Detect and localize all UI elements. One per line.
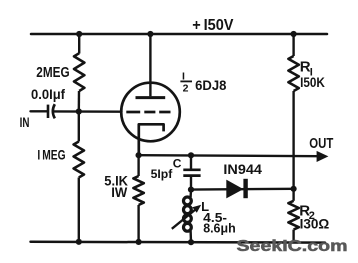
svg-text:8.6μh: 8.6μh <box>203 222 236 236</box>
svg-text:2MEG: 2MEG <box>36 65 69 81</box>
junction node: grid input <box>76 108 82 114</box>
wire: IN lead to coupling capacitor <box>31 110 48 112</box>
svg-text:I50K: I50K <box>300 74 325 90</box>
svg-text:IW: IW <box>111 184 128 200</box>
wire: 2MEG to input node <box>78 91 81 112</box>
capacitor C 51pf <box>183 170 200 176</box>
svg-text:OUT: OUT <box>309 136 333 152</box>
junction node: diode/R1/R2 <box>291 186 297 192</box>
junction node: gnd/5.1K <box>136 239 142 245</box>
wire: capacitor to grid of tube <box>54 110 122 113</box>
junction node: gnd/L <box>188 239 194 245</box>
wire: R2 to ground rail <box>292 230 294 243</box>
wire: diode node down to inductor <box>189 190 192 198</box>
wire: 5.1K to ground rail <box>137 205 139 242</box>
wire: cathode node to OUT <box>139 155 319 156</box>
svg-text:SeekIC.com: SeekIC.com <box>237 238 348 255</box>
tube cathode <box>139 124 164 155</box>
wire: bottom ground rail <box>31 241 326 244</box>
tube plate (anode) bar <box>136 96 166 99</box>
wire: +150V top supply rail <box>31 33 327 36</box>
svg-text:6DJ8: 6DJ8 <box>195 77 227 93</box>
junction node: cathode/out <box>136 152 142 158</box>
svg-text:I MEG: I MEG <box>37 146 65 162</box>
junction node: C/diode/L <box>188 187 194 193</box>
wire: diode node to R2 <box>292 189 294 201</box>
diode D1 1N944 <box>226 180 243 199</box>
OUT arrowhead <box>317 151 329 162</box>
inductor L 4.5-8.6uh (variable) <box>184 197 192 231</box>
label 1/2 fraction <box>180 70 192 94</box>
resistor 1MEG <box>74 142 84 178</box>
junction node: out/C <box>188 152 194 158</box>
tube grid (dashed) <box>126 111 170 114</box>
tube V1 1/2 6DJ8 envelope <box>121 83 180 142</box>
wire: C to diode node <box>190 176 192 190</box>
junction node: gnd/1MEG <box>76 239 82 245</box>
variable inductor arrow <box>172 210 196 229</box>
svg-text:0.0Iμf: 0.0Iμf <box>31 87 66 102</box>
resistor 2MEG <box>74 53 84 91</box>
svg-text:5Ipf: 5Ipf <box>151 167 174 181</box>
svg-text:IN944: IN944 <box>223 161 262 177</box>
capacitor 0.01uf input coupling <box>48 104 55 118</box>
resistor 5.1K 1W <box>133 176 143 205</box>
wire: diode anode line <box>191 188 294 191</box>
svg-text:IN: IN <box>20 114 30 130</box>
wire: cathode node down to 5.1K <box>137 155 139 176</box>
resistor R1 150K <box>288 56 298 91</box>
junction node: rail/plate <box>147 31 153 37</box>
wire: inductor to ground rail <box>189 231 192 242</box>
svg-text:I30Ω: I30Ω <box>300 215 330 231</box>
svg-text:C: C <box>173 156 182 170</box>
wire: 1MEG to ground rail <box>78 178 80 242</box>
wire: R1 down through out node to diode node <box>292 91 294 189</box>
resistor R2 130 ohm <box>288 201 298 230</box>
svg-text:+ I50V: + I50V <box>192 17 234 34</box>
wire: plate lead from top rail <box>149 34 151 96</box>
wire: top rail to R1 <box>292 34 294 56</box>
junction node: rail/R1 <box>291 31 297 37</box>
junction node: rail/2MEG <box>76 31 82 37</box>
wire: input node to 1MEG <box>78 112 80 142</box>
wire: top rail to 2MEG <box>78 34 80 54</box>
wire: out line down to C 51pf <box>190 155 192 169</box>
svg-text:2: 2 <box>183 83 189 95</box>
